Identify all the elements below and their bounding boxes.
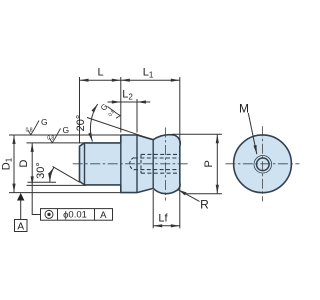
hidden drill point arc <box>130 158 134 170</box>
svg-text:20°: 20° <box>75 115 87 132</box>
svg-text:0.8: 0.8 <box>26 128 33 134</box>
dimension line Lf <box>153 225 180 227</box>
hidden thread major line top <box>141 153 180 155</box>
flange right edge <box>136 135 138 193</box>
dimension D extension line top <box>27 142 85 144</box>
side view horizontal centerline <box>73 163 190 165</box>
dimension Lf extension line right <box>179 184 181 228</box>
dimension D1 extension line bottom <box>9 192 121 194</box>
svg-text:M: M <box>239 102 249 116</box>
dimension Lf extension line left <box>152 190 154 228</box>
feature control frame leader <box>32 185 40 214</box>
dimension L/L1 shared extension line (flange left) <box>120 77 122 133</box>
dimension line L1 <box>121 79 180 81</box>
part body side view (shank + flange + taper + ball head) <box>80 135 181 194</box>
datum A triangle <box>17 193 24 201</box>
30 deg chamfer line <box>53 166 80 182</box>
waist tangency edge <box>152 140 154 189</box>
leader M <box>248 113 256 154</box>
leader R <box>178 190 200 202</box>
flange left edge <box>120 135 122 193</box>
chamfer edge line <box>84 143 86 185</box>
datum A stem <box>20 201 22 220</box>
dimension line L <box>80 79 121 81</box>
svg-text:A: A <box>17 222 24 233</box>
feature control frame <box>41 209 113 221</box>
svg-text:L: L <box>97 67 103 79</box>
dimension P extension line top <box>172 133 222 135</box>
dimension L1 extension line right (ball face) <box>179 77 181 144</box>
end view body circle <box>234 135 292 193</box>
datum A box <box>15 220 28 232</box>
svg-text:Lf: Lf <box>158 213 168 225</box>
concentricity symbol <box>45 210 53 218</box>
dimension line D1 <box>13 135 15 193</box>
dimension line D <box>31 143 33 186</box>
svg-text:A: A <box>100 210 107 221</box>
hidden thread major line bottom <box>141 172 180 174</box>
surface finish symbol on flange dia <box>28 121 39 135</box>
20 deg taper extension line <box>87 118 153 140</box>
dimension L extension line left (shank left face) <box>79 77 81 144</box>
svg-text:G: G <box>63 125 70 135</box>
20 deg dimension arc <box>90 104 97 142</box>
30 deg dimension arc <box>50 167 54 182</box>
svg-text:0.8: 0.8 <box>47 136 54 142</box>
svg-text:D: D <box>18 159 30 167</box>
surface finish symbol on shank dia <box>50 128 61 142</box>
surface finish symbol on taper <box>108 107 121 119</box>
svg-text:ϕ0.01: ϕ0.01 <box>63 210 87 221</box>
dimension line P <box>216 134 218 194</box>
ball vertical centerline <box>165 128 167 201</box>
30 deg horizontal reference line <box>28 181 57 183</box>
end view thread major thin circle <box>254 156 272 174</box>
dimension D1 extension line top <box>9 134 121 136</box>
end view vertical centerline <box>262 126 264 201</box>
svg-text:P: P <box>203 160 215 167</box>
dimension line L2 with outside arrows <box>121 101 137 103</box>
dimension L2 extension line right (flange right) <box>136 99 138 133</box>
dimension D extension line bottom <box>27 184 86 186</box>
hidden drill minor line top <box>134 157 180 159</box>
dimension P extension line bottom <box>183 193 222 195</box>
end view horizontal centerline <box>225 163 299 165</box>
hidden drill minor line bottom <box>134 169 180 171</box>
end view tapped hole bold circle <box>257 158 270 171</box>
svg-text:30°: 30° <box>35 162 47 179</box>
svg-text:G: G <box>41 117 48 127</box>
hidden thread end vertical <box>140 154 142 173</box>
svg-text:R: R <box>200 198 209 212</box>
